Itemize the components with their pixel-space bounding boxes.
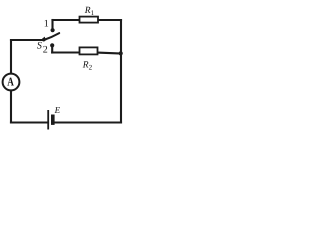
wire contact-2 to R2 (52, 51, 80, 53)
resistor R1 body (80, 17, 99, 23)
wire right rail (120, 20, 122, 123)
switch S lever arrowhead (40, 37, 47, 41)
wire left rail (10, 40, 12, 123)
background (0, 0, 131, 135)
wire bottom left (battery long plate to left rail) (11, 121, 48, 123)
svg-text:A: A (7, 74, 14, 88)
node junction R2/right rail dot (119, 51, 123, 55)
wire contact-2 stub (51, 46, 53, 53)
node contact 1 dot (51, 28, 55, 32)
svg-text:2: 2 (43, 44, 48, 55)
svg-text:E: E (54, 105, 61, 115)
node contact 2 dot (50, 43, 54, 47)
wire bottom right (right rail to battery short plate) (55, 121, 121, 123)
wire R2 to right rail (98, 52, 122, 55)
battery E short plate (51, 115, 55, 125)
svg-text:1: 1 (44, 19, 49, 30)
resistor R2 body (80, 47, 98, 54)
svg-text:S: S (37, 40, 42, 51)
switch pivot junction dot (42, 38, 45, 41)
ammeter A body (3, 74, 20, 91)
wire top-left (left rail to switch pivot) (11, 39, 44, 41)
battery E long plate (47, 110, 49, 130)
wire contact-1 stub (51, 20, 53, 30)
wire top (node between contact 1 and R1, to right rail) (53, 19, 122, 21)
switch S lever (44, 33, 60, 40)
